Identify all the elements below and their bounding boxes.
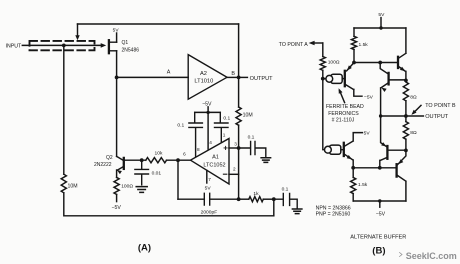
svg-text:5V: 5V bbox=[205, 185, 212, 191]
wire node B vertical bbox=[238, 24, 240, 148]
svg-text:(A): (A) bbox=[138, 243, 151, 254]
op-amp A2 LT1010 bbox=[188, 55, 227, 100]
transistor Q1 2N5486 (JFET) bbox=[109, 40, 139, 53]
resistor R2 10M (feedback) bbox=[236, 107, 253, 125]
resistor R4 10k bbox=[146, 150, 167, 162]
wire 100Ω to bead node bbox=[322, 70, 324, 78]
svg-text:2N5486: 2N5486 bbox=[122, 47, 140, 53]
svg-text:−5V: −5V bbox=[364, 94, 374, 100]
svg-text:B: B bbox=[231, 71, 235, 77]
svg-text:10k: 10k bbox=[155, 150, 163, 156]
svg-text:FERRITE BEAD: FERRITE BEAD bbox=[326, 104, 364, 110]
svg-text:5V: 5V bbox=[378, 12, 385, 18]
svg-text:1k: 1k bbox=[253, 191, 259, 197]
power -5V (B) bbox=[376, 199, 386, 217]
svg-text:OUTPUT: OUTPUT bbox=[250, 76, 274, 82]
svg-text:7: 7 bbox=[208, 177, 211, 182]
power -5V rail (A1 caps) bbox=[195, 102, 221, 115]
svg-text:TO POINT B: TO POINT B bbox=[425, 103, 456, 109]
resistor R3 100Ω (Q2 emitter) bbox=[114, 177, 133, 194]
label (B) bbox=[372, 245, 385, 256]
power +5V rail (B) bbox=[354, 12, 406, 30]
resistor R7 1.5k (upper) bbox=[351, 28, 368, 63]
svg-text:100Ω: 100Ω bbox=[121, 184, 133, 190]
shield guard dashed box bbox=[30, 41, 95, 50]
node Q6 emitter junction bbox=[404, 149, 408, 153]
ferrite bead (lower) bbox=[325, 145, 341, 154]
wire B input drop bbox=[322, 43, 324, 57]
node X1 tap bbox=[378, 61, 382, 65]
wire Q1 source to node A bbox=[116, 51, 118, 78]
wire X1 line bbox=[354, 62, 398, 64]
wire output bootstrap (top rail) bbox=[78, 23, 239, 25]
capacitor C4 0.01 bbox=[135, 160, 161, 185]
svg-text:TO POINT A: TO POINT A bbox=[279, 42, 308, 48]
transistor Q2 2N2222 bbox=[94, 155, 124, 177]
capacitor C6 0.1 (output filter) bbox=[274, 187, 297, 208]
node X2 bbox=[351, 166, 355, 170]
svg-text:0.1: 0.1 bbox=[223, 116, 230, 122]
svg-text:10M: 10M bbox=[68, 183, 78, 189]
wire node A down to Q2 collector bbox=[116, 77, 118, 156]
ferrite bead (upper) bbox=[326, 74, 342, 83]
label node A bbox=[167, 70, 171, 76]
svg-text:PNP = 2N5160: PNP = 2N5160 bbox=[316, 212, 351, 218]
label OUTPUT bbox=[239, 76, 274, 82]
svg-text:OUTPUT: OUTPUT bbox=[425, 114, 449, 120]
svg-text:2N2222: 2N2222 bbox=[94, 162, 112, 168]
label B bbox=[231, 71, 235, 77]
svg-text:1.5k: 1.5k bbox=[358, 182, 368, 188]
label INPUT bbox=[6, 44, 22, 50]
node B-circuit output bbox=[404, 114, 408, 118]
capacitor C3 0.1 (pin 3 filter) bbox=[239, 135, 266, 157]
node 1k output junction bbox=[272, 197, 276, 201]
svg-text:0.1: 0.1 bbox=[248, 135, 255, 141]
node feedback junction bbox=[237, 197, 241, 201]
svg-text:8Ω: 8Ω bbox=[410, 95, 417, 101]
label TO POINT A bbox=[279, 41, 323, 48]
wire clamp emitter line bbox=[379, 114, 406, 117]
svg-text:6: 6 bbox=[183, 151, 186, 156]
node bead junction bbox=[321, 77, 325, 81]
svg-text:ALTERNATE BUFFER: ALTERNATE BUFFER bbox=[350, 234, 406, 240]
wire upper bead line bbox=[323, 78, 345, 80]
wire pin3 node down to feedback line bbox=[238, 148, 240, 199]
svg-text:−5V: −5V bbox=[376, 212, 386, 218]
resistor R8 8Ω (upper) bbox=[403, 82, 417, 116]
svg-text:2000pF: 2000pF bbox=[201, 209, 218, 215]
wire input column to lower bead bbox=[323, 79, 344, 150]
svg-text:NPN = 2N3866: NPN = 2N3866 bbox=[316, 205, 351, 211]
wire input line to Q1 gate bbox=[22, 43, 106, 48]
node X1 bbox=[352, 61, 356, 65]
wire input node down to 10M bbox=[63, 45, 65, 174]
node B bbox=[237, 76, 241, 80]
svg-text:2: 2 bbox=[233, 166, 236, 171]
svg-text:INPUT: INPUT bbox=[6, 44, 22, 50]
node pin 3 junction bbox=[237, 146, 241, 150]
wire A1 pin 2 bbox=[229, 166, 239, 174]
transistor Q7 PNP current limit (lower middle) bbox=[380, 116, 406, 168]
svg-text:A2: A2 bbox=[200, 71, 207, 77]
wire A2 output to node B bbox=[227, 76, 239, 78]
wire guard bootstrap vertical bbox=[77, 24, 79, 36]
svg-text:−5V: −5V bbox=[112, 205, 122, 211]
svg-text:(B): (B) bbox=[372, 245, 385, 256]
resistor R1 10M (input) bbox=[61, 174, 77, 193]
svg-text:0.1: 0.1 bbox=[282, 187, 289, 193]
capacitor C2 0.1 (pin 1) bbox=[215, 112, 231, 142]
wire 10M to bottom bus bbox=[64, 193, 274, 216]
svg-text:8Ω: 8Ω bbox=[410, 130, 417, 136]
power -5V (Q2 emitter) bbox=[112, 194, 122, 210]
guard connection arrowhead bbox=[75, 35, 79, 40]
svg-text:LTC1052: LTC1052 bbox=[203, 162, 225, 168]
ground (0.01 cap) bbox=[136, 187, 147, 193]
resistor R6 100Ω (B input) bbox=[320, 57, 340, 71]
wire A1 pin 4 to -5V bbox=[208, 112, 212, 149]
label OUTPUT (B) bbox=[406, 114, 449, 120]
transistor Q6 PNP output (lower right) bbox=[397, 150, 406, 201]
svg-text:100Ω: 100Ω bbox=[328, 59, 340, 65]
svg-text:5V: 5V bbox=[364, 130, 371, 136]
label pin 6 bbox=[183, 151, 186, 156]
resistor R10 1.5k (lower) bbox=[351, 168, 368, 201]
wire Q2 base to pin 6 bbox=[125, 159, 191, 161]
transistor Q4 NPN output (upper right) bbox=[398, 28, 406, 80]
wire bottom rail (B) bbox=[353, 200, 406, 202]
wire feedback line left bbox=[178, 198, 204, 200]
svg-text:3: 3 bbox=[234, 142, 237, 147]
wire pin6 node down to 2000pF bbox=[177, 160, 179, 199]
svg-text:0.1: 0.1 bbox=[177, 123, 184, 129]
ground (pin 3 cap) bbox=[261, 158, 271, 163]
wire A1 pin 7 +5V stub bbox=[205, 170, 212, 191]
resistor R5 1k bbox=[239, 191, 274, 202]
wire feedback bus riser bbox=[273, 199, 275, 216]
svg-text:1: 1 bbox=[223, 132, 226, 137]
wire X2 line bbox=[353, 167, 396, 169]
label TO POINT B callout bbox=[411, 103, 456, 115]
svg-text:−5V: −5V bbox=[202, 102, 212, 108]
svg-text:A: A bbox=[167, 70, 171, 76]
power +5V (Q8 collector) bbox=[364, 130, 371, 136]
svg-text:4: 4 bbox=[209, 140, 212, 145]
op-amp A1 LTC1052 bbox=[191, 139, 230, 185]
transistor Q8 NPN driver (lower left) bbox=[344, 133, 363, 168]
label ALTERNATE BUFFER bbox=[350, 234, 406, 240]
power +5V (Q1 drain) bbox=[113, 27, 120, 42]
transistor Q5 NPN current limit (upper middle) bbox=[380, 63, 406, 117]
ground (output filter cap) bbox=[292, 209, 302, 214]
svg-text:A1: A1 bbox=[212, 154, 219, 160]
svg-text:Q1: Q1 bbox=[122, 40, 129, 46]
label (A) bbox=[138, 243, 151, 254]
power -5V (Q3 collector) bbox=[364, 94, 374, 100]
svg-text:Q2: Q2 bbox=[106, 155, 113, 161]
node pin 6 junction bbox=[176, 158, 180, 162]
svg-text:5V: 5V bbox=[113, 27, 120, 33]
wire A1 pin 3 bbox=[229, 142, 239, 149]
svg-text:FERRONICS: FERRONICS bbox=[328, 111, 359, 117]
capacitor C1 0.1 (pin 8) bbox=[177, 112, 202, 156]
svg-text:LT1010: LT1010 bbox=[194, 78, 213, 84]
svg-text:10M: 10M bbox=[243, 112, 253, 118]
capacitor C5 2000pF bbox=[201, 193, 239, 215]
resistor R9 8Ω (lower) bbox=[403, 116, 417, 150]
svg-text:# 21-110J: # 21-110J bbox=[332, 118, 355, 124]
callout ferrite bead bbox=[326, 88, 364, 123]
label transistor types bbox=[316, 205, 351, 217]
svg-text:SeekIC.com: SeekIC.com bbox=[406, 251, 457, 261]
node X2 tap bbox=[378, 166, 382, 170]
watermark SeekIC.com bbox=[400, 251, 457, 261]
wire node A to A2 input bbox=[117, 76, 189, 78]
node Q4 emitter junction bbox=[404, 79, 408, 83]
svg-text:1.5k: 1.5k bbox=[359, 42, 369, 48]
transistor Q3 PNP driver (upper left) bbox=[345, 63, 362, 97]
node input junction bbox=[62, 44, 66, 48]
node A junction bbox=[115, 76, 119, 80]
node Q2 base junction bbox=[140, 158, 144, 162]
svg-text:8: 8 bbox=[197, 147, 200, 152]
svg-text:0.01: 0.01 bbox=[152, 171, 162, 177]
